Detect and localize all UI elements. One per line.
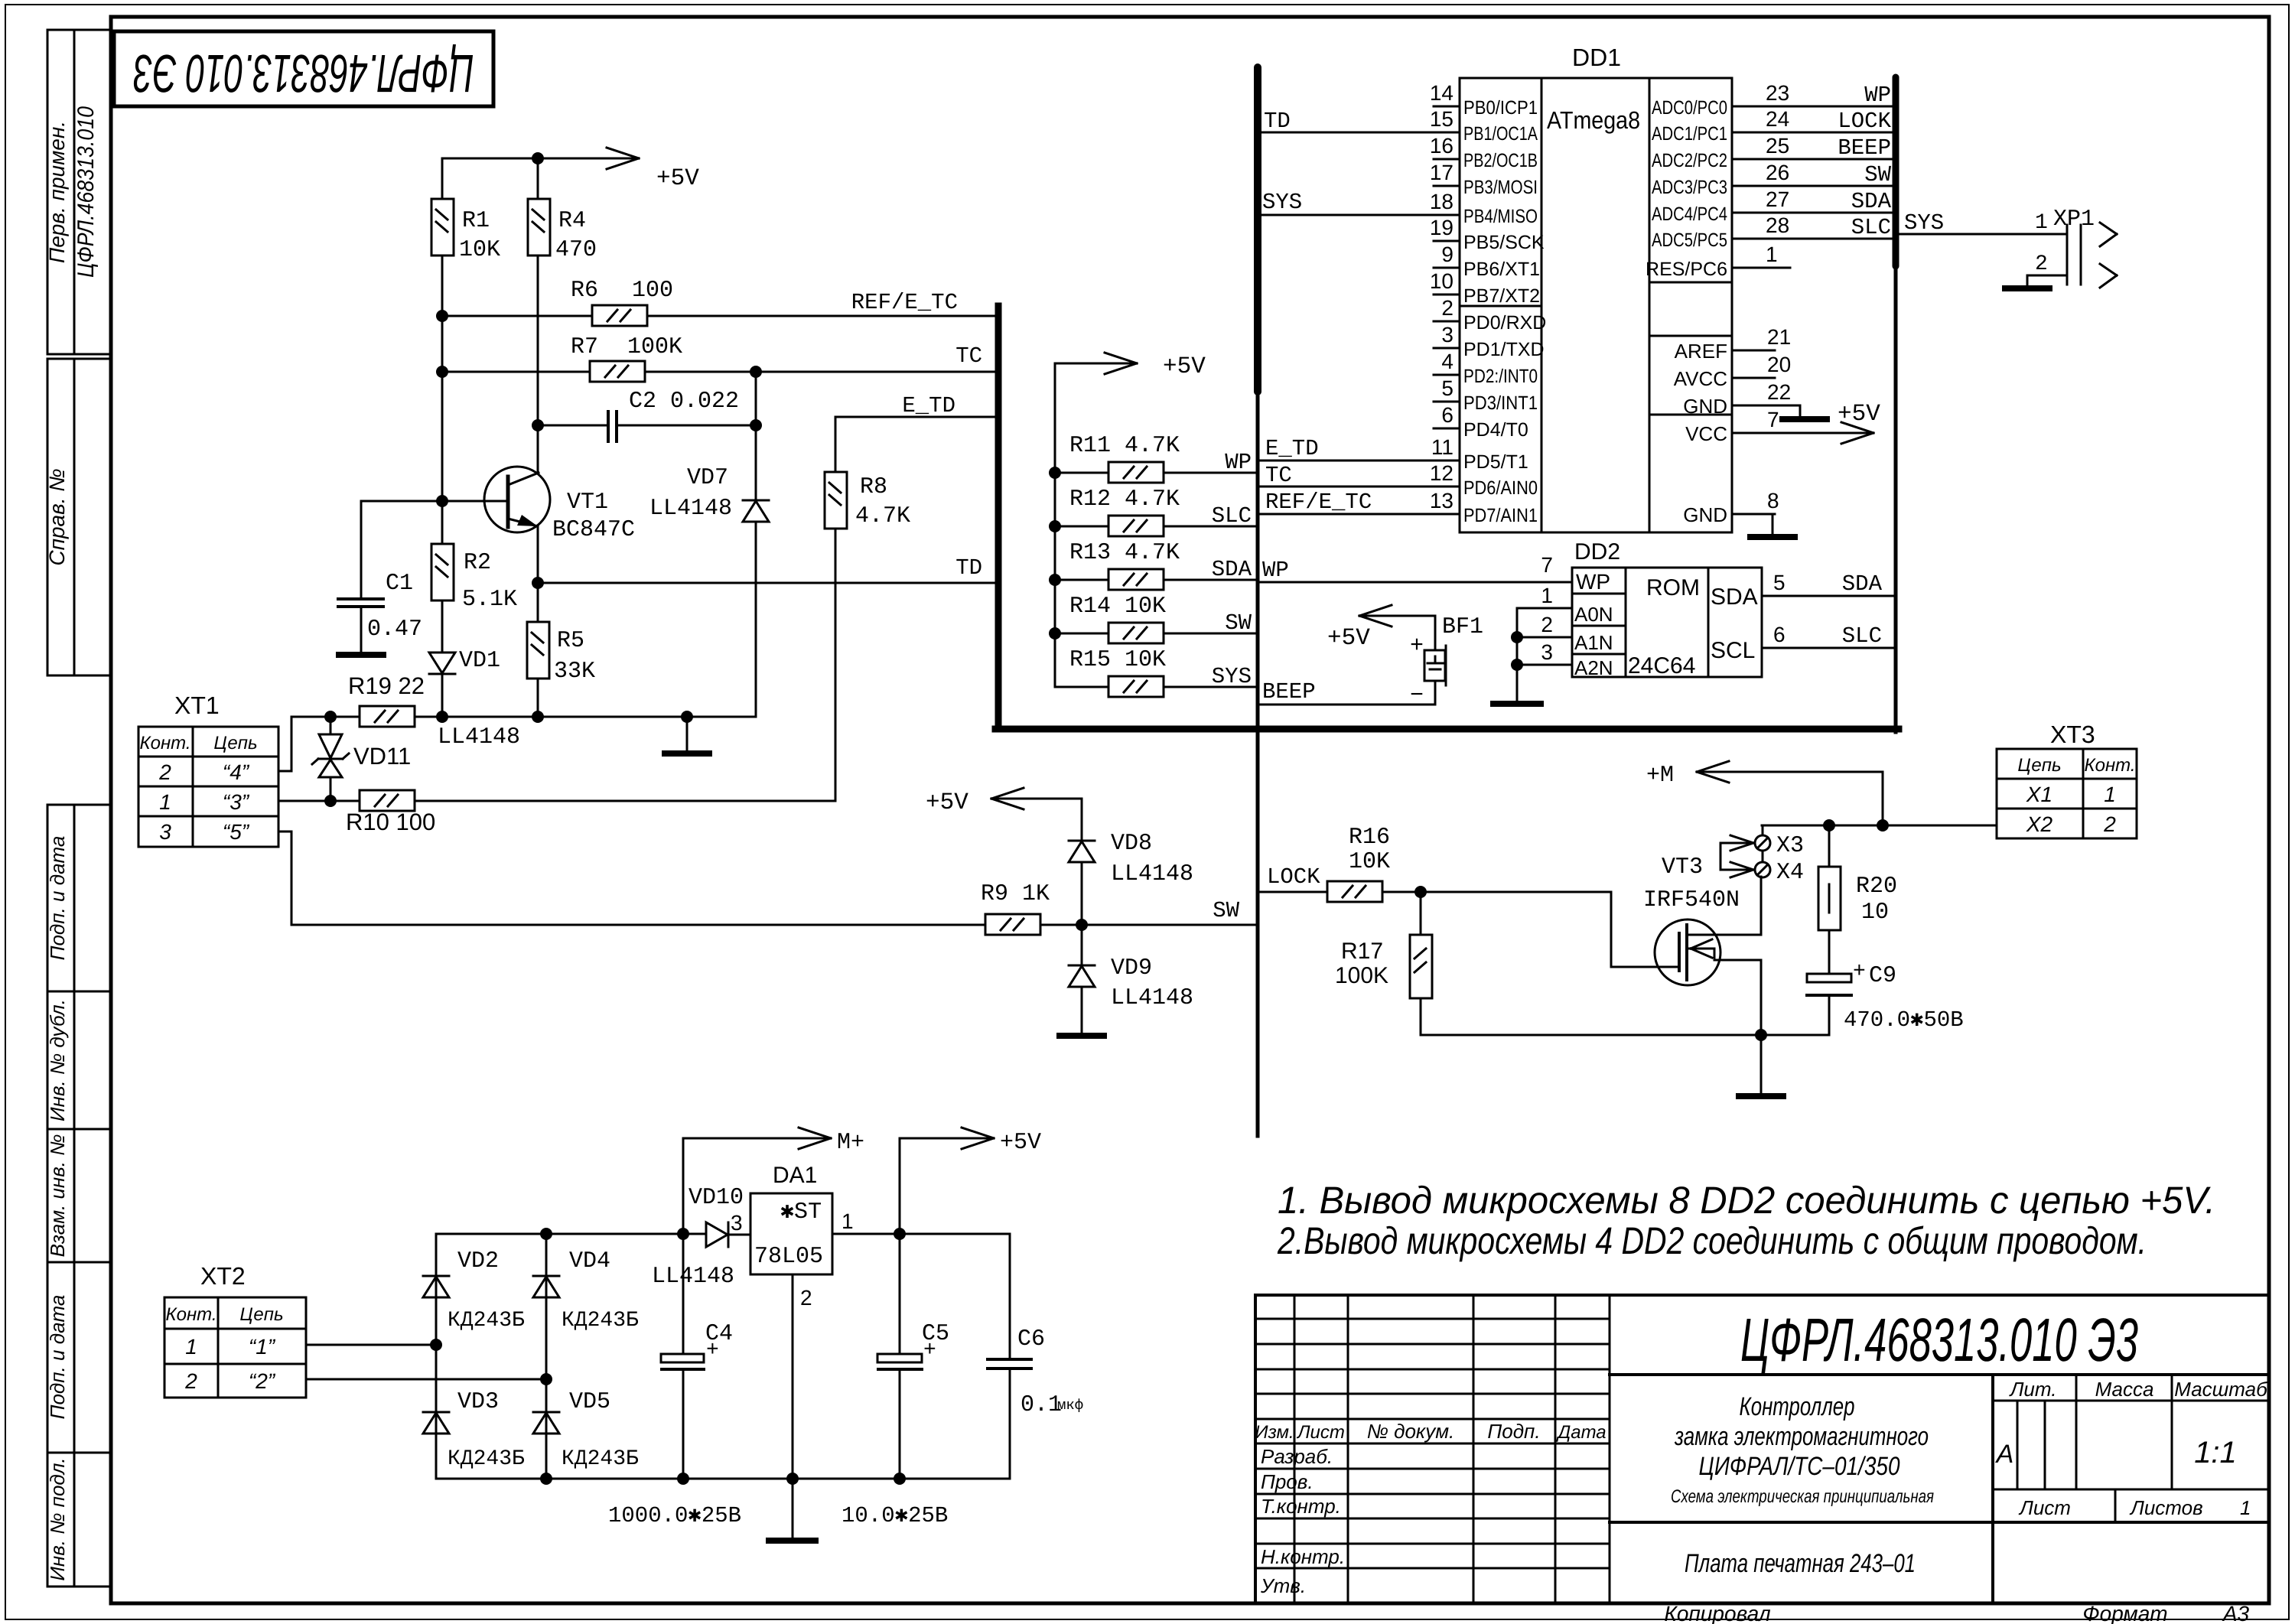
label C9 [1853,960,1896,989]
junction +5V/C5 node [894,1228,906,1240]
wire GND8 [1773,514,1775,535]
svg-text:+5V: +5V [1000,1130,1041,1156]
svg-text:21: 21 [1767,325,1791,349]
DD1 pin 5 stub [1434,401,1460,403]
DD2 pin7 number [1541,553,1553,577]
margin field box Взам. инв. № [47,1129,111,1262]
transistor VT3 [1655,919,1761,985]
DD1 pin 8 number [1767,489,1779,513]
label R19 22 [348,672,425,699]
DD1 pin label ADC4/PC4 [1652,203,1727,225]
svg-text:A1N: A1N [1574,631,1613,654]
DD1 pin 18 number [1430,190,1453,213]
svg-text:Дата: Дата [1555,1422,1606,1443]
label R8 4.7K [855,474,910,529]
DD1 pin 22 number [1767,380,1791,404]
svg-text:PB6/XT1: PB6/XT1 [1463,259,1540,280]
junction R7/C2/VD7 node [750,366,762,378]
svg-text:2: 2 [1541,613,1553,636]
ground DD2 address pins [1493,701,1541,707]
svg-text:2: 2 [184,1369,197,1393]
wire TD to bus [538,582,998,584]
svg-text:VD7: VD7 [687,465,728,491]
wire VD7 top [755,372,757,500]
svg-text:XP1: XP1 [2053,207,2095,233]
DD1 pin 21 number [1767,325,1791,349]
svg-text:6: 6 [1441,403,1453,427]
svg-text:ADC5/PC5: ADC5/PC5 [1652,229,1727,251]
wire X3-X4 [1762,851,1764,862]
ground C1 [339,652,383,658]
svg-text:SCL: SCL [1711,638,1755,663]
svg-text:WP: WP [1576,570,1610,594]
wire R10 right [415,799,835,801]
svg-text:1: 1 [2240,1496,2251,1519]
diode VD3 [423,1412,449,1434]
svg-text:R10 100: R10 100 [346,809,435,835]
wire SYS to DD1 pin18 [1258,214,1434,216]
junction C5 bottom [894,1473,906,1485]
svg-text:“1”: “1” [249,1335,276,1359]
wire E_TD to DD1 pin11 [1258,460,1434,462]
junction TD node [532,577,544,589]
XP1 pin2 [2035,252,2117,288]
label X4 [1776,860,1804,886]
svg-text:24: 24 [1766,107,1789,131]
junction/wire R13 left [1049,574,1108,586]
svg-text:5.1K: 5.1K [462,587,517,613]
label VT1 BC847C [552,490,635,543]
label DD1 [1572,44,1621,71]
DD1 pin 4 number [1441,350,1453,373]
net label TD (DD1) [1264,109,1291,134]
wire DD1 BEEP to bus [1759,158,1896,161]
wire TC to DD1 pin12 [1258,486,1434,488]
svg-text:4: 4 [1441,350,1453,373]
svg-text:4.7K: 4.7K [855,503,910,529]
svg-text:Пров.: Пров. [1261,1470,1314,1493]
DD2 pin3 number [1541,640,1553,664]
svg-text:PD0/RXD: PD0/RXD [1463,312,1546,334]
svg-text:2: 2 [1441,296,1453,320]
junction/wire R12 left [1049,520,1108,532]
label VD7 [649,465,732,522]
svg-text:DD1: DD1 [1572,44,1621,71]
wire XT1-4 to R19 [278,717,330,771]
svg-text:R2: R2 [464,550,491,576]
wire R8 bottom [835,529,837,799]
net label SW (R14) [1225,610,1252,636]
svg-text:PB7/XT2: PB7/XT2 [1463,285,1540,307]
svg-text:ADC4/PC4: ADC4/PC4 [1652,203,1727,225]
wire +M riser [1882,772,1884,825]
svg-text:7: 7 [1541,553,1553,577]
capacitor C5 [877,1234,922,1479]
DD2 A0N cell [1574,603,1613,626]
DD1 pin 13 number [1430,489,1453,513]
label M+ [837,1130,864,1156]
bus group line left (vertical, to DD1) [1254,67,1261,1136]
DD1 pin label PD1/TXD [1463,339,1545,360]
+5V arrow BF1 [1359,605,1435,626]
junction DD2 pin2 [1511,631,1523,643]
svg-text:LL4148: LL4148 [1111,861,1193,887]
wire LOCK from bus [1258,891,1327,893]
junction VD8/VD9 [1076,919,1088,931]
svg-text:VCC: VCC [1685,422,1727,445]
label C5 [922,1321,949,1362]
junction VD4 top [540,1228,552,1240]
svg-text:ЦИФРАЛ/ТС–01/350: ЦИФРАЛ/ТС–01/350 [1699,1452,1900,1481]
net label BEEP [1262,679,1316,705]
title block litera A [1995,1440,2014,1469]
svg-text:Копировал: Копировал [1664,1602,1770,1624]
label VD2 [448,1248,525,1333]
svg-text:17: 17 [1430,161,1453,184]
svg-text:WP: WP [1225,450,1252,475]
DD1 pin 9 number [1441,242,1453,266]
wire R15 right [1164,686,1258,688]
net label SW (left) [1213,898,1239,923]
label C6 [1017,1326,1045,1352]
svg-text:1: 1 [185,1335,197,1359]
label Подп. и дата (upper) [46,836,69,961]
svg-text:DA1: DA1 [773,1163,817,1188]
net label LOCK (DD1 right) [1838,109,1891,134]
diode VD8 [1069,841,1095,862]
svg-text:VT1: VT1 [567,490,608,516]
wire R7 right to bus [646,371,998,373]
label C1 [386,571,413,597]
wire R2 bottom [441,600,444,650]
DD1 pin 23 stub [1732,106,1759,108]
margin field box Инв. № подл. [47,1453,111,1587]
label BF1 [1442,614,1483,640]
label VD5 [562,1389,639,1471]
wire VT1 emitter [537,526,539,583]
ground VD9 [1060,987,1104,1036]
bottom rail bridge [436,1478,1010,1480]
resistor R9 [985,914,1040,935]
junction/wire R14 left [1049,627,1108,640]
wire R19 net 2 [538,716,756,718]
label Перв. примен. [45,121,69,263]
junction/wire R11 left [1049,467,1108,479]
DD2 pin5 number [1773,571,1786,594]
label R11 4.7K [1069,433,1180,459]
DD1 pin 13 stub [1434,513,1460,516]
svg-text:Схема электрическая принципиал: Схема электрическая принципиальная [1671,1486,1934,1507]
svg-text:PD3/INT1: PD3/INT1 [1463,392,1538,414]
svg-text:Конт.: Конт. [165,1304,216,1325]
svg-text:+5V: +5V [926,789,968,816]
label +5V (VCC) [1838,401,1880,428]
svg-text:11: 11 [1431,435,1453,459]
wire R6 right to bus [647,315,998,317]
ground DA1 pin2 [769,1538,815,1544]
svg-text:BEEP: BEEP [1262,679,1316,705]
svg-text:R19 22: R19 22 [348,672,425,699]
svg-text:0.47: 0.47 [367,617,422,643]
wire XT1-3 to VD11 [278,800,330,802]
svg-text:2: 2 [158,760,171,784]
label R10 100 [346,809,435,835]
wire R14 right [1164,633,1258,635]
DD1 pin label PB1/OC1A [1463,123,1538,145]
DD1 pin 11 stub [1434,460,1460,462]
svg-text:PD6/AIN0: PD6/AIN0 [1463,477,1538,499]
ground GND8 [1750,534,1795,540]
svg-text:100K: 100K [627,334,682,360]
DD1 pin 9 stub [1434,267,1460,269]
svg-text:16: 16 [1430,134,1453,158]
svg-text:20: 20 [1767,353,1791,376]
svg-text:PD5/T1: PD5/T1 [1463,451,1528,473]
svg-text:1: 1 [2035,211,2048,235]
wire WP to DD2 pin7 [1258,581,1572,584]
svg-text:1: 1 [159,790,171,814]
DD1 pin 10 number [1430,269,1453,293]
label VD9 [1111,955,1193,1011]
DD1 pin 12 number [1430,461,1453,485]
svg-text:+: + [1853,960,1866,984]
label C2 0.022 [629,389,739,415]
DD1 pin 25 stub [1732,158,1759,161]
resistor R20 [1818,867,1841,930]
buzzer BF1 [1424,646,1446,685]
svg-text:SYS: SYS [1262,190,1302,215]
net label SDA (DD1 right) [1851,189,1892,214]
wire DD1 SDA to bus [1759,212,1896,214]
junction/wire R15 left [1055,686,1108,688]
wire VD7 bottom [755,522,757,717]
transistor VT1 [484,467,550,532]
svg-text:X3: X3 [1776,833,1804,859]
label R20 10 [1856,874,1897,926]
svg-text:+5V: +5V [656,165,699,192]
DD1 pin label PD0/RXD [1463,312,1546,334]
wire C2 right [617,425,756,427]
DD1 pin 12 stub [1434,486,1460,488]
connector XT3 table [1997,749,2137,838]
svg-text:SDA: SDA [1842,571,1883,597]
wire DD1 SLC to bus [1759,238,1896,240]
svg-text:VD8: VD8 [1111,831,1152,857]
net label SYS (XP1) [1904,210,1944,236]
XT3 row X1 [2026,783,2116,806]
junction R16/R17 [1414,886,1427,898]
svg-text:VD4: VD4 [569,1248,610,1274]
net label REF/E_TC (DD1) [1265,490,1372,515]
svg-text:PD2:/INT0: PD2:/INT0 [1463,366,1538,387]
title block Лит Масса Масштаб [2009,1378,2269,1401]
svg-text:ADC3/PC3: ADC3/PC3 [1652,177,1727,198]
DA1 78L05 [754,1244,823,1270]
label XP1 [2053,207,2095,233]
svg-text:R17: R17 [1341,939,1383,964]
svg-text:R1: R1 [462,208,490,234]
resistor R8 [825,472,847,529]
wire corner to VD7 [755,522,757,717]
svg-text:Масштаб: Масштаб [2174,1378,2268,1401]
net label TD (left) [955,555,982,581]
wire SYS to XP1 [1896,233,2067,236]
svg-text:TD: TD [1264,109,1291,134]
svg-text:Подп. и дата: Подп. и дата [46,1295,69,1420]
contact X4 [1755,862,1770,877]
XT2 header [165,1304,283,1325]
net label E_TD (DD1) [1265,436,1319,461]
label VD11 [353,743,411,770]
DD1 pin label GND [1683,503,1727,526]
svg-text:SLC: SLC [1851,215,1891,240]
DD1 pin label PB3/MOSI [1463,177,1538,198]
wire DD2 pin6 SLC [1762,647,1896,649]
svg-text:R9 1K: R9 1K [981,881,1050,907]
svg-text:C2 0.022: C2 0.022 [629,389,739,415]
DD1 pin 27 number [1766,187,1789,211]
label X3 [1776,833,1804,859]
label Инв. № подл. [46,1457,69,1580]
title block scale 1:1 [2194,1436,2237,1469]
svg-text:Подп.: Подп. [1487,1420,1540,1443]
svg-text:Цепь: Цепь [213,733,257,753]
label R17 100K [1335,939,1388,988]
label DD2 [1574,539,1620,565]
svg-text:REF/E_TC: REF/E_TC [851,290,958,315]
svg-text:LL4148: LL4148 [438,724,520,750]
DD2 ROM label [1646,575,1700,600]
net label SDA (DD2) [1842,571,1883,597]
svg-text:PB5/SCK: PB5/SCK [1463,232,1545,253]
svg-text:SDA: SDA [1711,584,1758,610]
label XT2 [200,1262,246,1290]
svg-text:2: 2 [2035,252,2048,276]
junction VD1/R19 [436,711,448,723]
svg-text:SW: SW [1213,898,1239,923]
svg-text:Контроллер: Контроллер [1740,1392,1855,1421]
svg-text:замка электромагнитного: замка электромагнитного [1674,1422,1929,1451]
wire DA1 pin2 [792,1274,794,1540]
label C1 value [367,617,422,643]
top rail bridge to VD10 [436,1233,706,1235]
svg-text:1: 1 [2104,783,2116,806]
title block Лист Листов [2018,1496,2251,1519]
label C4 [705,1321,733,1362]
svg-text:R20: R20 [1856,874,1897,900]
svg-text:470: 470 [555,237,597,263]
wire C9 bottom [1828,995,1831,1035]
net label LOCK [1267,864,1320,890]
svg-text:R4: R4 [558,208,586,234]
net label BEEP (DD1 right) [1838,135,1891,161]
net label SLC (DD2) [1842,623,1882,649]
svg-text:28: 28 [1766,213,1789,237]
net label SYS (DD1) [1262,190,1302,215]
svg-text:+: + [706,1339,719,1362]
svg-text:TC: TC [1265,463,1292,488]
svg-text:R11 4.7K: R11 4.7K [1069,433,1180,459]
wire R2 top [441,501,444,544]
label XT3 [2050,721,2095,748]
svg-text:DD2: DD2 [1574,539,1620,565]
connector XP1 bars [2067,225,2081,285]
bridge right leg [545,1234,548,1479]
net label SDA (R13) [1212,557,1252,582]
svg-text:78L05: 78L05 [754,1244,823,1270]
svg-text:Разраб.: Разраб. [1261,1445,1333,1468]
svg-text:Взам. инв. №: Взам. инв. № [46,1134,69,1258]
svg-text:VD10: VD10 [688,1185,744,1211]
svg-text:Инв. № подл.: Инв. № подл. [46,1457,69,1580]
svg-text:VT3: VT3 [1662,854,1703,880]
DD2 pin1 number [1541,584,1553,607]
svg-text:15: 15 [1430,107,1453,131]
margin field box Подп. и дата (upper) [47,805,111,991]
title block Т.контр. [1261,1495,1341,1518]
label C9 value [1844,1007,1964,1033]
svg-text:КД243Б: КД243Б [448,1309,525,1333]
wire R1 bottom to base node [441,255,444,501]
svg-text:8: 8 [1767,489,1779,513]
net label WP (DD1 right) [1864,83,1891,108]
DD1 pin label ADC0/PC0 [1652,97,1727,119]
capacitor C1 [338,599,383,607]
DD1 pin 28 number [1766,213,1789,237]
label R1 [459,208,500,263]
wire TD to DD1 pin15 [1258,132,1434,134]
bus group line right (to DD1 port C) [1893,77,1899,732]
DD1 pin 1 number [1766,242,1778,266]
DD1 pin 5 number [1441,376,1453,400]
label R9 1K [981,881,1050,907]
svg-text:5: 5 [1441,376,1453,400]
DD1 pin 19 number [1430,216,1453,239]
svg-text:ЦФРЛ.468313.010: ЦФРЛ.468313.010 [73,106,99,278]
svg-text:+: + [1410,633,1424,659]
svg-text:+5V: +5V [1838,401,1880,428]
svg-text:RES/PC6: RES/PC6 [1646,259,1727,280]
svg-text:Конт.: Конт. [2084,755,2135,776]
top-left stamp box [114,31,493,106]
wire to R10 [330,800,360,802]
DA1 pin3 number [731,1211,743,1235]
junction R7 left [436,366,448,378]
svg-text:ADC0/PC0: ADC0/PC0 [1652,97,1727,119]
DD1 pin 26 number [1766,161,1789,184]
IC DD2 box [1572,568,1762,677]
DD1 pin 27 stub [1732,212,1759,214]
title block Плата печатная [1685,1549,1916,1578]
XT1 header [139,733,257,753]
svg-text:AVCC: AVCC [1674,367,1727,390]
margin field box Справ. № [47,359,111,675]
label Подп. и дата (lower) [46,1295,69,1420]
margin field box Перв. примен. [47,30,111,354]
DD1 pin 15 number [1430,107,1453,131]
label VT3 [1662,854,1703,880]
svg-text:BF1: BF1 [1442,614,1483,640]
svg-text:10: 10 [1861,900,1889,926]
DD2 pin6 number [1773,623,1786,646]
capacitor C6 [988,1234,1031,1479]
svg-text:PD7/AIN1: PD7/AIN1 [1463,505,1538,526]
DD1 pin label GND [1683,395,1727,418]
DD2 A1N cell [1574,631,1613,654]
svg-text:SLC: SLC [1212,503,1252,529]
wire R12 right [1164,526,1258,528]
svg-text:Лит.: Лит. [2009,1378,2057,1401]
